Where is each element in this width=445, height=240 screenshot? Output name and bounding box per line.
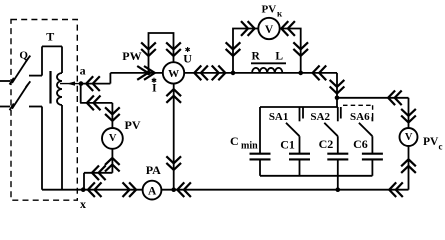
connector jacks PW right riser bbox=[166, 42, 181, 56]
svg-text:U: U bbox=[183, 51, 192, 65]
svg-text:C6: C6 bbox=[353, 137, 368, 151]
switch Q pole 2 blade bbox=[12, 84, 28, 109]
SA2 blade bbox=[324, 123, 338, 136]
voltmeter PV_K body bbox=[258, 18, 279, 39]
transformer T left leg upper bbox=[41, 46, 43, 75]
svg-text:PV: PV bbox=[262, 3, 277, 15]
connector jacks below W bbox=[166, 89, 181, 103]
transformer T left leg lower bbox=[41, 107, 43, 190]
connector jacks below V PV_c bbox=[401, 159, 416, 173]
wire right corner down to node bbox=[336, 73, 338, 107]
svg-text:SA1: SA1 bbox=[269, 111, 289, 123]
PV branch horizontal back bbox=[84, 172, 112, 174]
svg-text:T: T bbox=[46, 29, 54, 43]
svg-text:V: V bbox=[265, 24, 274, 36]
node bottom W branch dot bbox=[171, 187, 176, 192]
node I junction dot bbox=[146, 71, 151, 76]
main top wire bbox=[110, 72, 337, 74]
svg-text:V: V bbox=[109, 133, 117, 144]
svg-text:SA6: SA6 bbox=[350, 111, 370, 123]
cell divider tick SA2/SA6 bbox=[340, 107, 342, 119]
connector jacks PV_K right leg bbox=[293, 42, 308, 56]
connector jacks bottom right bbox=[389, 182, 403, 197]
svg-text:R: R bbox=[252, 50, 261, 62]
SA1 top stub bbox=[299, 107, 301, 121]
SA1 blade bbox=[286, 123, 300, 136]
connector jacks above V PV bbox=[105, 107, 120, 121]
svg-text:C2: C2 bbox=[319, 137, 334, 151]
supply wire 1 (stub into Q) bbox=[0, 80, 10, 82]
wire Q pole2 to winding bbox=[29, 106, 42, 108]
switch Q pole 2 top tick bbox=[26, 81, 31, 87]
node left of R-L dot bbox=[231, 71, 236, 76]
node a junction dot bbox=[79, 81, 84, 86]
bank rail drop to bottom wire bbox=[337, 176, 339, 190]
PW potential loop: left riser, top, right riser into W bbox=[149, 33, 174, 73]
PV branch below V bbox=[111, 149, 113, 173]
node bottom capacitor drop dot bbox=[336, 187, 341, 192]
connector jacks after W (chevrons right) bbox=[212, 66, 226, 81]
switch Q pole 1 top tick bbox=[26, 56, 31, 62]
svg-text:A: A bbox=[148, 186, 157, 198]
wire node a to step bbox=[81, 83, 110, 85]
PV branch vertical into V bbox=[111, 103, 113, 128]
switch Q pole 2 jaw tick bbox=[10, 104, 14, 111]
C6 bottom lead bbox=[371, 159, 373, 175]
connector jacks after node x bbox=[88, 182, 102, 197]
R L underline bbox=[251, 62, 286, 64]
dashed continuation to SA6 bbox=[343, 104, 373, 106]
wire Q pole1 to winding bbox=[29, 75, 42, 77]
C1 top lead bbox=[299, 136, 301, 154]
wattmeter W body bbox=[163, 62, 184, 83]
connector jacks above bottom node bbox=[166, 156, 181, 170]
svg-text:V: V bbox=[405, 132, 413, 143]
transformer T right leg below coil bbox=[61, 105, 63, 190]
label asterisk U bbox=[185, 47, 189, 52]
C_min plates bbox=[250, 154, 271, 160]
label asterisk I bbox=[152, 78, 156, 83]
dashed enclosure (autotransformer unit) bbox=[11, 20, 77, 201]
switch Q pole 1 blade bbox=[12, 59, 28, 84]
svg-text:C: C bbox=[230, 134, 239, 148]
svg-text:c: c bbox=[439, 142, 443, 152]
supply wire 2 (stub into Q) bbox=[0, 106, 10, 108]
connector jacks PW left riser bbox=[141, 42, 156, 56]
svg-text:к: к bbox=[277, 8, 283, 18]
wiper arrow shaft bbox=[60, 83, 81, 85]
SA6 blade bbox=[359, 123, 373, 136]
transformer T core bar bbox=[49, 71, 51, 104]
transformer T right leg above coil bbox=[61, 46, 63, 73]
svg-text:SA2: SA2 bbox=[310, 111, 330, 123]
capacitor bank top rail bbox=[260, 106, 338, 108]
connector jacks before PA bbox=[123, 182, 137, 197]
node at capacitor feed dot bbox=[335, 96, 340, 101]
switch Q pole 1 jaw tick bbox=[10, 78, 14, 85]
svg-text:L: L bbox=[275, 50, 283, 62]
wattmeter W bottom branch bbox=[173, 84, 175, 190]
cell divider tick SA1/SA2 bbox=[302, 107, 304, 119]
dashed corner at SA6 bbox=[372, 105, 374, 117]
wire step up bbox=[109, 73, 111, 84]
svg-text:PW: PW bbox=[122, 49, 141, 63]
voltmeter PV body bbox=[102, 128, 123, 149]
PV branch down to node x bbox=[83, 173, 85, 190]
PV_K loop left side bbox=[233, 29, 258, 73]
PV_K loop right side bbox=[280, 29, 301, 73]
main bottom wire bbox=[42, 189, 409, 191]
svg-text:x: x bbox=[80, 197, 86, 211]
C_min bottom lead bbox=[259, 159, 261, 175]
capacitor bank bottom rail bbox=[260, 175, 372, 177]
node x junction dot bbox=[81, 187, 86, 192]
voltmeter PV_c body bbox=[400, 128, 418, 146]
svg-text:PV: PV bbox=[125, 118, 141, 132]
connector jacks PV_K left leg bbox=[226, 42, 241, 56]
PV branch: node a down bbox=[80, 84, 82, 103]
connector jacks PV_K top right bbox=[281, 21, 295, 36]
wiper arrow head bbox=[67, 81, 75, 85]
svg-text:Q: Q bbox=[19, 50, 28, 62]
C1 bottom lead bbox=[299, 159, 301, 175]
C6 top lead bbox=[371, 136, 373, 154]
C2 bottom lead bbox=[337, 159, 339, 175]
svg-text:a: a bbox=[80, 64, 86, 78]
SA6 top stub bbox=[371, 117, 373, 121]
connector jacks on wire a (double chevron) bbox=[86, 76, 100, 91]
connector jacks on corner vertical bbox=[330, 80, 345, 94]
C_min top lead bbox=[259, 107, 261, 154]
SA2 top stub bbox=[337, 107, 339, 121]
connector jacks on wire to PV_c bbox=[388, 90, 402, 105]
connector jacks PV branch top bbox=[87, 96, 101, 111]
svg-text:W: W bbox=[168, 68, 179, 80]
PV branch horizontal to V bbox=[80, 102, 112, 104]
node right of R-L dot bbox=[298, 71, 303, 76]
PV_c branch vertical upper bbox=[408, 98, 410, 128]
C6 plates bbox=[362, 154, 383, 160]
inductor R-L coil bbox=[252, 68, 282, 73]
C1 plates bbox=[289, 154, 310, 160]
connector jacks after W (chevrons left) bbox=[194, 66, 208, 81]
connector jacks below V PV bbox=[105, 158, 120, 172]
PV_c branch vertical lower bbox=[408, 146, 410, 190]
transformer T winding coil bbox=[57, 73, 62, 105]
connector jacks before corner (chevrons left) bbox=[313, 66, 327, 81]
connector jacks above V PV_c bbox=[401, 109, 416, 123]
svg-text:PV: PV bbox=[423, 136, 439, 148]
connector jacks before node I (double chevron, shallow) bbox=[137, 66, 155, 80]
ammeter PA body bbox=[143, 181, 162, 200]
svg-text:min: min bbox=[241, 140, 258, 151]
svg-text:PA: PA bbox=[146, 163, 161, 177]
connector jacks right of bottom node bbox=[177, 182, 191, 197]
C2 top lead bbox=[337, 136, 339, 154]
connector jacks PV branch return bbox=[92, 165, 106, 180]
C2 plates bbox=[327, 154, 348, 160]
transformer T top connection bbox=[42, 45, 62, 47]
wire node to PV_c corner bbox=[337, 97, 409, 99]
svg-text:I: I bbox=[152, 81, 157, 95]
svg-text:C1: C1 bbox=[280, 137, 295, 151]
connector jacks PV_K top left bbox=[241, 21, 255, 36]
